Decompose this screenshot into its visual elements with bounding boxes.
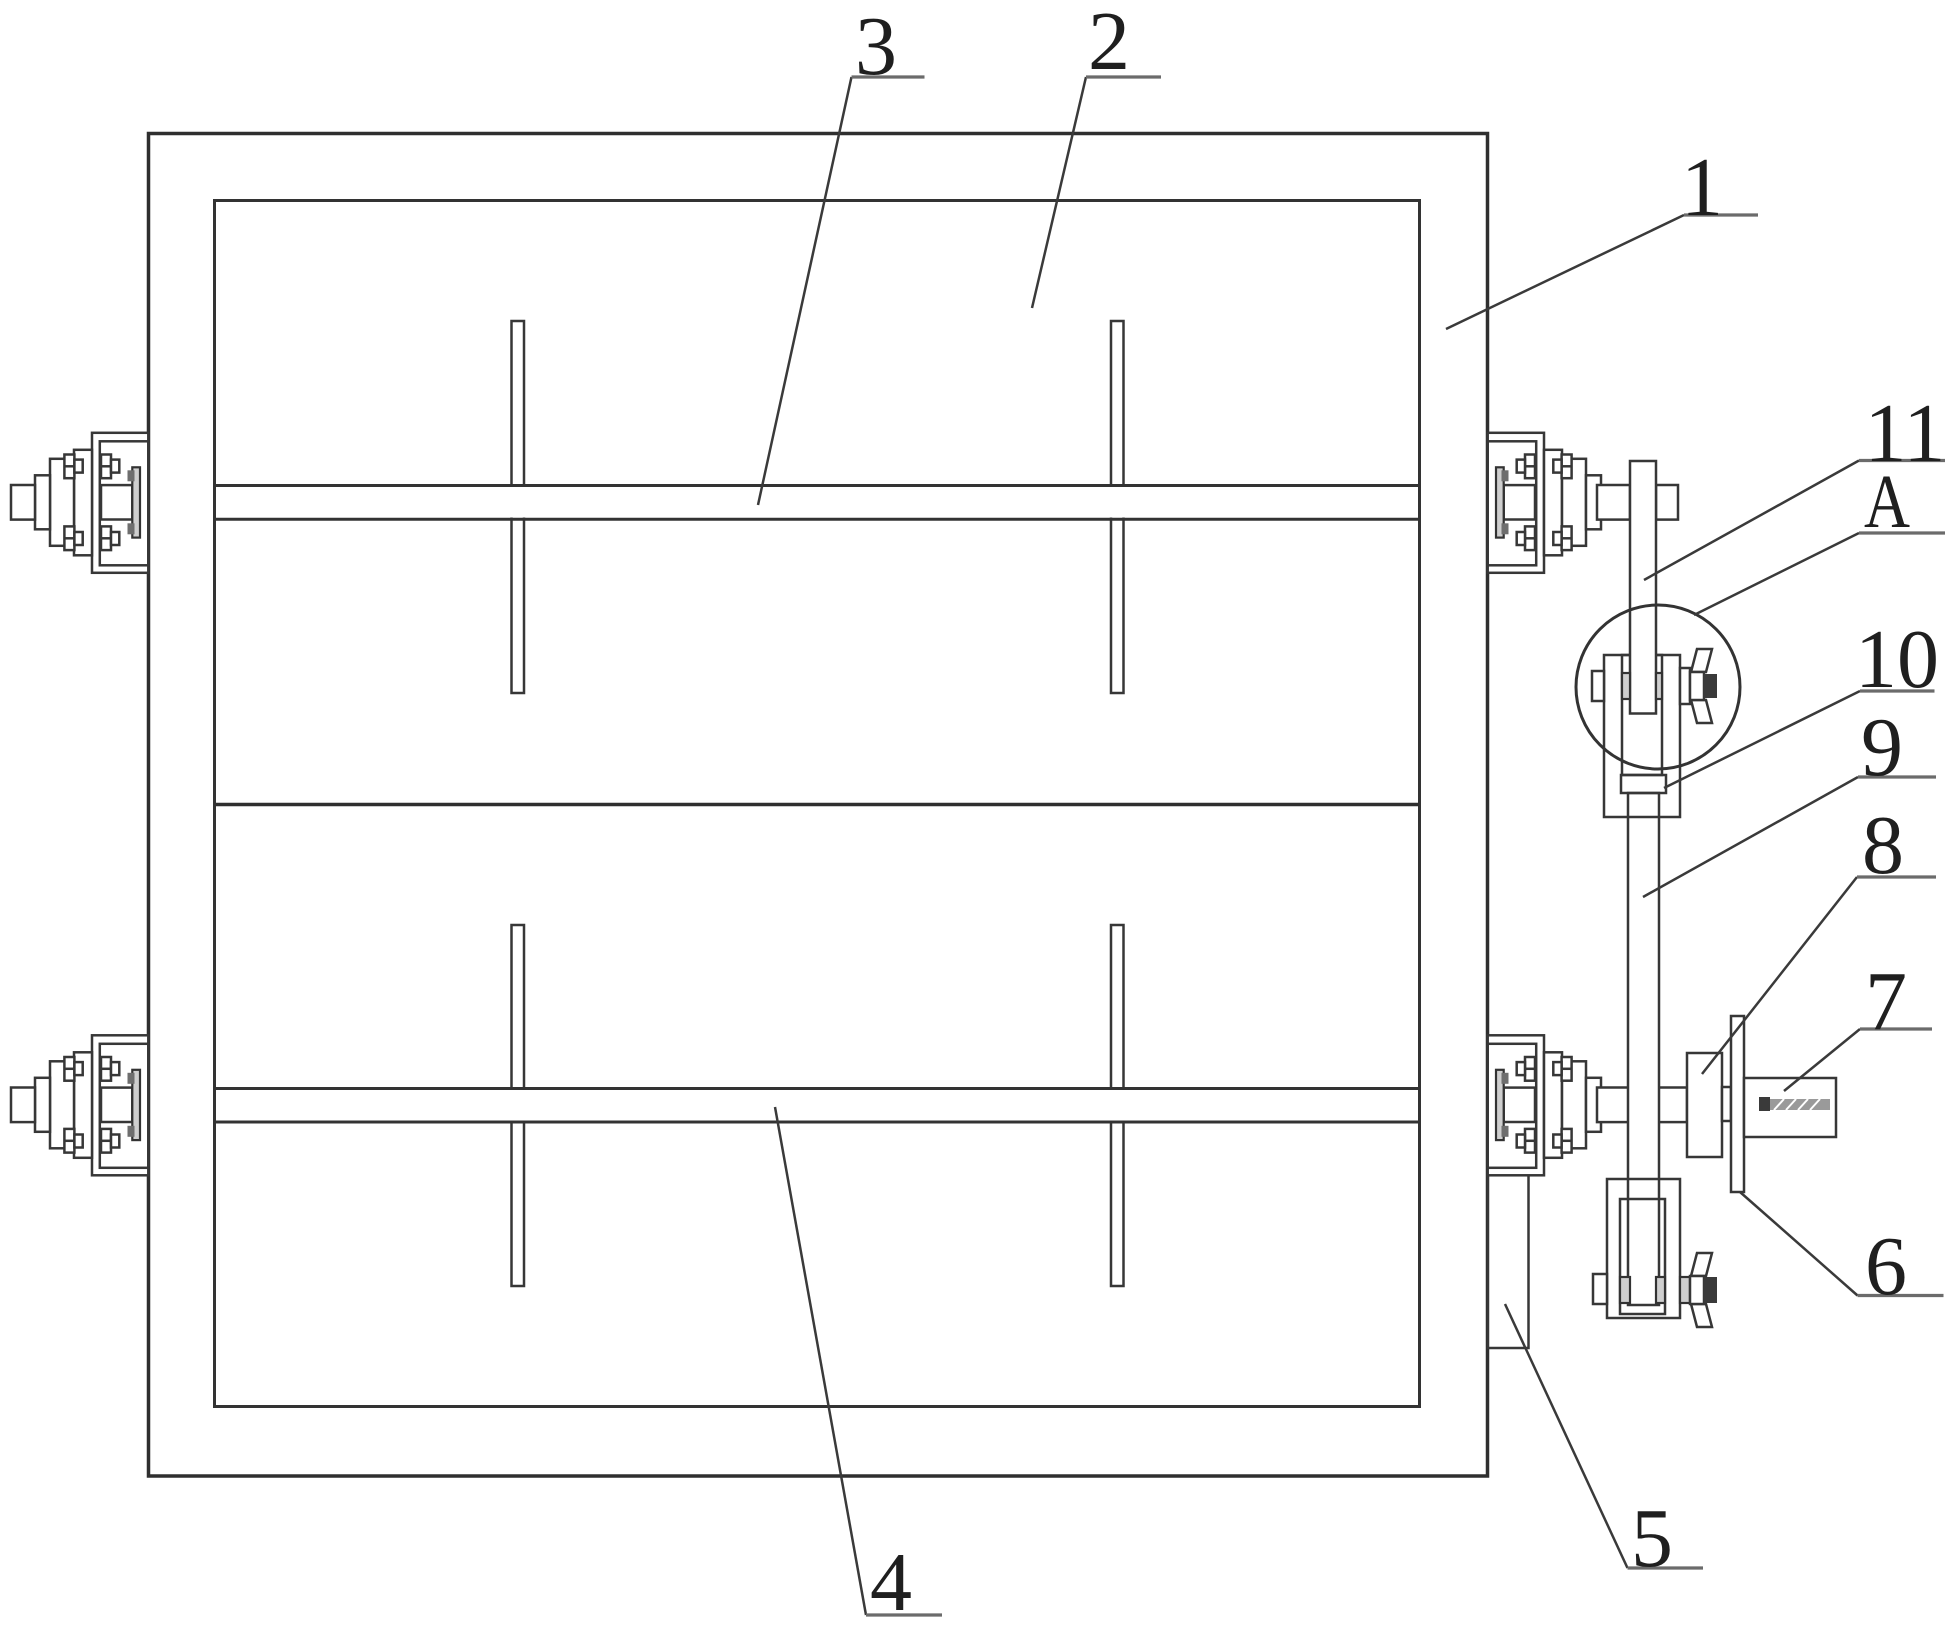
svg-text:7: 7 [1865,955,1907,1048]
svg-text:4: 4 [870,1536,912,1628]
svg-text:A: A [1864,460,1910,544]
svg-text:5: 5 [1631,1492,1673,1585]
svg-text:8: 8 [1862,799,1904,892]
svg-text:1: 1 [1681,141,1723,234]
svg-text:9: 9 [1861,701,1903,794]
svg-text:3: 3 [855,0,897,93]
svg-text:6: 6 [1865,1220,1907,1313]
svg-text:2: 2 [1088,0,1130,88]
svg-text:10: 10 [1855,613,1939,706]
